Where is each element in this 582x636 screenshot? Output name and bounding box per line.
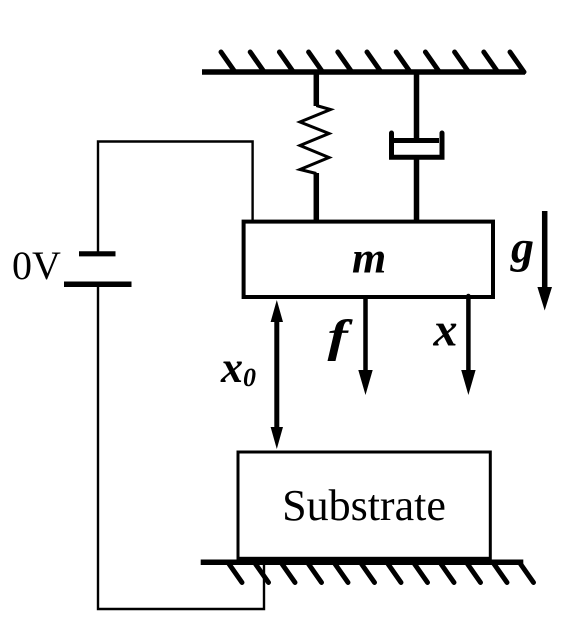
spring k top rod (314, 72, 320, 106)
damper b top rod (414, 72, 420, 141)
svg-text:0V: 0V (12, 243, 61, 288)
damper b bottom rod (414, 157, 420, 222)
wire battery top to mass (98, 142, 253, 254)
battery V1 bottom plate (long) (64, 281, 132, 287)
floor hatch marks (228, 563, 534, 583)
floor anchor line (201, 560, 524, 566)
svg-text:g: g (510, 222, 534, 273)
spring k zigzag (300, 106, 331, 174)
displacement arrow x (461, 296, 475, 395)
svg-text:0: 0 (243, 363, 256, 392)
gap arrow x0 double-headed (271, 300, 283, 449)
gravity arrow g (537, 211, 552, 311)
spring k bottom rod (314, 173, 320, 222)
force arrow f (358, 296, 372, 395)
svg-text:m: m (352, 234, 386, 283)
wire battery bottom loop to substrate (98, 287, 264, 609)
damper b piston plate (393, 138, 439, 143)
ceiling hatch marks (221, 52, 524, 72)
svg-text:Substrate: Substrate (282, 481, 446, 530)
damper b cup (392, 133, 443, 157)
svg-text:x: x (220, 343, 243, 392)
svg-text:x: x (433, 304, 458, 357)
ceiling anchor line (202, 69, 525, 75)
substrate block (238, 452, 490, 558)
battery V1 top plate (short) (79, 251, 116, 256)
label f (328, 311, 354, 362)
mass block m (244, 222, 493, 297)
